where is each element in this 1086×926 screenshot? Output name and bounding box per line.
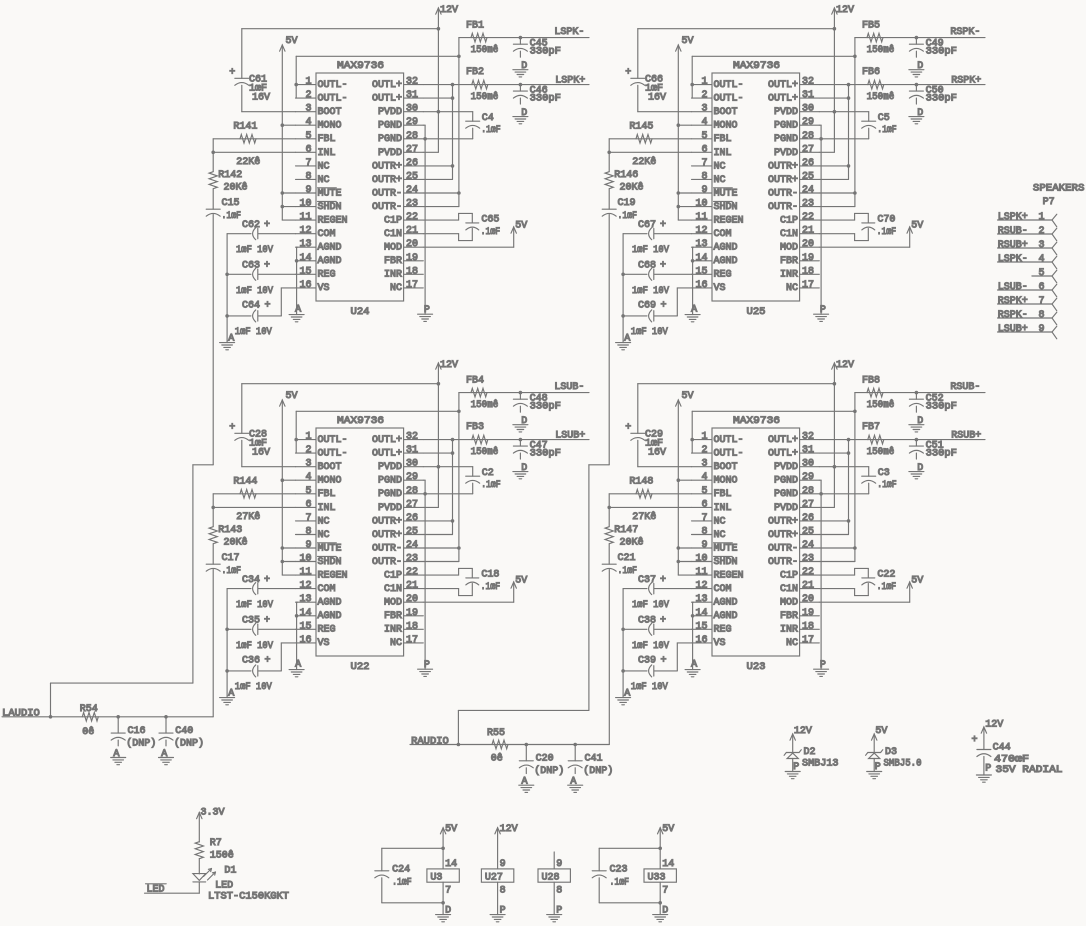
svg-text:P: P	[424, 660, 430, 671]
svg-text:4: 4	[305, 117, 311, 128]
svg-text:C1N: C1N	[780, 229, 798, 240]
svg-text:SHDN: SHDN	[714, 202, 738, 213]
svg-text:+: +	[660, 261, 666, 272]
svg-text:5V: 5V	[911, 221, 923, 232]
svg-text:330pF: 330pF	[926, 94, 957, 105]
svg-text:C4: C4	[482, 113, 494, 124]
svg-text:18: 18	[802, 266, 814, 277]
svg-text:FBL: FBL	[714, 489, 732, 500]
svg-text:1œF 10V: 1œF 10V	[236, 641, 273, 652]
svg-text:22Kê: 22Kê	[236, 156, 260, 168]
svg-text:.1œF: .1œF	[877, 480, 897, 491]
svg-text:7: 7	[1038, 296, 1044, 307]
svg-text:3: 3	[305, 459, 311, 470]
svg-text:+: +	[264, 261, 270, 272]
svg-text:330pF: 330pF	[530, 94, 561, 105]
svg-text:16V: 16V	[252, 448, 270, 459]
svg-text:C34: C34	[242, 575, 260, 586]
svg-text:R143: R143	[218, 525, 242, 536]
svg-text:PGND: PGND	[774, 489, 798, 500]
svg-text:30: 30	[406, 459, 418, 470]
svg-text:11: 11	[695, 212, 707, 223]
svg-text:6: 6	[701, 144, 707, 155]
svg-text:C1P: C1P	[780, 216, 798, 227]
svg-text:23: 23	[802, 199, 814, 210]
svg-text:C16: C16	[128, 726, 146, 737]
svg-text:REG: REG	[318, 625, 336, 636]
svg-text:10: 10	[695, 554, 707, 565]
svg-text:REGEN: REGEN	[714, 571, 744, 582]
svg-text:21: 21	[802, 581, 814, 592]
svg-text:OUTL+: OUTL+	[372, 94, 402, 105]
svg-text:31: 31	[802, 445, 814, 456]
svg-text:OUTR-: OUTR-	[372, 543, 402, 554]
svg-text:14: 14	[299, 608, 311, 619]
svg-text:OUTL-: OUTL-	[714, 94, 744, 105]
svg-text:15: 15	[695, 621, 707, 632]
svg-text:1œF 10V: 1œF 10V	[235, 327, 272, 338]
svg-text:R146: R146	[614, 170, 638, 181]
svg-text:OUTR+: OUTR+	[768, 516, 798, 527]
svg-text:29: 29	[406, 472, 418, 483]
svg-text:7: 7	[305, 513, 311, 524]
svg-text:U28: U28	[542, 873, 560, 884]
svg-text:25: 25	[406, 171, 418, 182]
svg-text:150mê: 150mê	[867, 44, 895, 56]
svg-text:19: 19	[802, 253, 814, 264]
svg-text:.1œF: .1œF	[877, 125, 897, 136]
svg-text:14: 14	[695, 608, 707, 619]
svg-text:21: 21	[406, 226, 418, 237]
svg-text:FB3: FB3	[466, 422, 484, 433]
svg-text:.1œF: .1œF	[618, 566, 638, 577]
svg-text:D: D	[521, 61, 527, 72]
svg-text:A: A	[624, 333, 630, 344]
svg-text:AGND: AGND	[318, 598, 342, 609]
svg-text:16: 16	[695, 635, 707, 646]
svg-text:MONO: MONO	[318, 476, 342, 487]
svg-text:NC: NC	[786, 283, 798, 294]
svg-text:22: 22	[802, 212, 814, 223]
svg-text:13: 13	[695, 239, 707, 250]
svg-text:30: 30	[802, 459, 814, 470]
svg-text:22Kê: 22Kê	[632, 156, 656, 168]
svg-text:C39: C39	[638, 656, 656, 667]
svg-text:+: +	[661, 301, 667, 312]
svg-text:13: 13	[299, 594, 311, 605]
svg-text:470œF: 470œF	[994, 755, 1029, 766]
svg-text:BOOT: BOOT	[318, 107, 342, 118]
svg-text:12: 12	[695, 226, 707, 237]
svg-text:C63: C63	[242, 261, 260, 272]
svg-text:28: 28	[802, 131, 814, 142]
svg-text:C20: C20	[536, 754, 554, 765]
svg-text:24: 24	[802, 185, 814, 196]
svg-text:27: 27	[802, 144, 814, 155]
svg-text:C62: C62	[242, 220, 260, 231]
svg-text:U25: U25	[747, 307, 766, 318]
svg-text:19: 19	[802, 608, 814, 619]
svg-text:MAX9736: MAX9736	[733, 416, 780, 427]
svg-text:4: 4	[1038, 254, 1044, 265]
svg-text:30: 30	[406, 104, 418, 115]
svg-text:5V: 5V	[682, 391, 694, 402]
svg-text:LSUB+: LSUB+	[555, 431, 585, 442]
svg-text:D: D	[917, 108, 923, 119]
svg-text:+: +	[660, 575, 666, 586]
svg-text:5: 5	[1038, 268, 1044, 279]
svg-text:5: 5	[701, 131, 707, 142]
svg-text:MOD: MOD	[384, 243, 402, 254]
svg-text:R55: R55	[487, 728, 505, 739]
svg-text:+: +	[972, 735, 978, 746]
svg-text:330pF: 330pF	[926, 449, 957, 460]
svg-text:8: 8	[305, 527, 311, 538]
svg-text:MONO: MONO	[714, 121, 738, 132]
svg-text:REGEN: REGEN	[318, 216, 348, 227]
svg-text:MUTE: MUTE	[714, 543, 738, 554]
svg-text:RSUB+: RSUB+	[951, 431, 981, 442]
svg-text:C2: C2	[482, 468, 494, 479]
svg-text:OUTL-: OUTL-	[318, 80, 348, 91]
svg-text:150mê: 150mê	[867, 91, 895, 103]
svg-text:INL: INL	[714, 148, 732, 159]
svg-text:7: 7	[701, 513, 707, 524]
svg-text:1: 1	[1038, 212, 1044, 223]
svg-text:.1œF: .1œF	[481, 480, 501, 491]
svg-text:7: 7	[701, 158, 707, 169]
svg-text:19: 19	[406, 253, 418, 264]
svg-text:15: 15	[299, 621, 311, 632]
svg-text:OUTL+: OUTL+	[372, 449, 402, 460]
svg-text:22: 22	[802, 567, 814, 578]
svg-text:1œF 10V: 1œF 10V	[632, 245, 669, 256]
svg-text:A: A	[295, 305, 301, 316]
svg-text:+: +	[264, 220, 270, 231]
svg-text:FBR: FBR	[384, 611, 402, 622]
svg-text:OUTR-: OUTR-	[372, 202, 402, 213]
svg-text:COM: COM	[714, 229, 732, 240]
svg-text:P: P	[985, 764, 991, 775]
svg-text:20: 20	[406, 239, 418, 250]
svg-text:7: 7	[445, 886, 451, 897]
svg-text:FB6: FB6	[862, 67, 880, 78]
svg-text:5V: 5V	[911, 576, 923, 587]
svg-text:R54: R54	[80, 704, 98, 715]
svg-text:1œF 10V: 1œF 10V	[236, 600, 273, 611]
svg-text:SPEAKERS: SPEAKERS	[1033, 184, 1085, 195]
svg-text:1œF 10V: 1œF 10V	[631, 327, 668, 338]
svg-text:20: 20	[406, 594, 418, 605]
svg-text:32: 32	[802, 77, 814, 88]
svg-text:25: 25	[802, 527, 814, 538]
svg-text:REG: REG	[714, 625, 732, 636]
svg-text:19: 19	[406, 608, 418, 619]
svg-text:C68: C68	[638, 261, 656, 272]
svg-text:FB7: FB7	[862, 422, 880, 433]
svg-text:330pF: 330pF	[530, 449, 561, 460]
svg-text:D: D	[917, 463, 923, 474]
svg-text:C44: C44	[993, 743, 1011, 754]
svg-text:1: 1	[701, 77, 707, 88]
svg-text:5V: 5V	[662, 824, 674, 835]
svg-text:A: A	[691, 305, 697, 316]
svg-text:OUTL+: OUTL+	[768, 94, 798, 105]
svg-text:AGND: AGND	[714, 256, 738, 267]
svg-text:OUTL-: OUTL-	[318, 94, 348, 105]
svg-text:C70: C70	[877, 215, 895, 226]
svg-text:23: 23	[802, 554, 814, 565]
svg-text:C37: C37	[638, 575, 656, 586]
svg-text:PVDD: PVDD	[378, 503, 402, 514]
svg-text:AGND: AGND	[318, 256, 342, 267]
svg-text:1: 1	[305, 77, 311, 88]
svg-text:150mê: 150mê	[867, 446, 895, 458]
svg-text:U27: U27	[485, 873, 503, 884]
svg-text:PGND: PGND	[378, 476, 402, 487]
svg-text:SMBJ13: SMBJ13	[802, 759, 839, 770]
svg-text:NC: NC	[318, 530, 330, 541]
svg-text:AGND: AGND	[714, 598, 738, 609]
svg-text:OUTR-: OUTR-	[768, 543, 798, 554]
svg-text:5V: 5V	[286, 391, 298, 402]
svg-text:.1œF: .1œF	[877, 227, 897, 238]
svg-text:25: 25	[802, 171, 814, 182]
svg-text:D1: D1	[224, 866, 236, 877]
svg-text:A: A	[570, 777, 576, 788]
svg-text:5V: 5V	[875, 726, 887, 737]
svg-text:(DNP): (DNP)	[174, 738, 204, 750]
svg-text:FBL: FBL	[318, 489, 336, 500]
svg-text:PVDD: PVDD	[378, 462, 402, 473]
svg-text:31: 31	[406, 90, 418, 101]
svg-text:1œF 10V: 1œF 10V	[236, 245, 273, 256]
svg-text:BOOT: BOOT	[318, 462, 342, 473]
svg-text:LED: LED	[215, 881, 233, 892]
svg-text:FBR: FBR	[780, 256, 798, 267]
svg-text:3: 3	[701, 104, 707, 115]
svg-text:12V: 12V	[794, 726, 812, 737]
svg-text:10: 10	[299, 554, 311, 565]
svg-text:U33: U33	[648, 873, 666, 884]
svg-text:27Kê: 27Kê	[632, 511, 656, 523]
svg-text:+: +	[229, 422, 235, 433]
svg-text:RAUDIO: RAUDIO	[411, 737, 449, 748]
svg-text:30: 30	[802, 104, 814, 115]
svg-text:9: 9	[305, 185, 311, 196]
svg-text:MAX9736: MAX9736	[337, 416, 384, 427]
svg-text:330pF: 330pF	[530, 47, 561, 58]
svg-text:18: 18	[406, 621, 418, 632]
svg-text:INR: INR	[384, 270, 402, 281]
svg-text:RSPK-: RSPK-	[998, 310, 1028, 321]
svg-text:9: 9	[701, 185, 707, 196]
svg-text:BOOT: BOOT	[714, 462, 738, 473]
svg-text:A: A	[228, 688, 234, 699]
svg-text:LSPK+: LSPK+	[555, 76, 585, 87]
svg-text:LSPK-: LSPK-	[554, 27, 584, 38]
svg-text:13: 13	[695, 594, 707, 605]
svg-text:LAUDIO: LAUDIO	[2, 709, 40, 720]
svg-text:5: 5	[305, 131, 311, 142]
svg-text:+: +	[265, 301, 271, 312]
svg-text:FB2: FB2	[466, 67, 484, 78]
svg-text:9: 9	[1038, 324, 1044, 335]
svg-text:150mê: 150mê	[471, 44, 499, 56]
svg-text:INL: INL	[318, 503, 336, 514]
svg-text:C67: C67	[638, 220, 656, 231]
svg-text:35V RADIAL: 35V RADIAL	[996, 765, 1063, 776]
svg-text:MOD: MOD	[780, 243, 798, 254]
svg-text:R144: R144	[233, 477, 257, 488]
svg-text:31: 31	[802, 90, 814, 101]
svg-text:5V: 5V	[682, 36, 694, 47]
svg-text:C18: C18	[481, 570, 499, 581]
svg-text:RSUB-: RSUB-	[950, 382, 980, 393]
svg-text:16: 16	[695, 280, 707, 291]
svg-text:9: 9	[305, 540, 311, 551]
svg-text:MOD: MOD	[384, 598, 402, 609]
svg-text:C3: C3	[878, 468, 890, 479]
svg-text:1: 1	[701, 432, 707, 443]
svg-text:16: 16	[299, 635, 311, 646]
svg-text:MOD: MOD	[780, 598, 798, 609]
svg-text:C38: C38	[638, 616, 656, 627]
svg-text:3: 3	[305, 104, 311, 115]
svg-text:U24: U24	[351, 307, 370, 318]
svg-text:20Kê: 20Kê	[224, 182, 248, 194]
svg-text:RSUB-: RSUB-	[998, 226, 1028, 237]
svg-text:+: +	[264, 616, 270, 627]
svg-text:32: 32	[406, 77, 418, 88]
svg-text:2: 2	[701, 445, 707, 456]
svg-text:28: 28	[406, 131, 418, 142]
svg-text:NC: NC	[714, 175, 726, 186]
svg-text:C41: C41	[585, 754, 603, 765]
svg-text:27: 27	[406, 499, 418, 510]
svg-text:P: P	[820, 305, 826, 316]
svg-text:SHDN: SHDN	[714, 557, 738, 568]
svg-text:OUTL+: OUTL+	[768, 449, 798, 460]
svg-text:.1œF: .1œF	[481, 582, 501, 593]
svg-text:20: 20	[802, 594, 814, 605]
svg-text:6: 6	[305, 144, 311, 155]
svg-text:C5: C5	[878, 113, 890, 124]
svg-text:PVDD: PVDD	[774, 462, 798, 473]
svg-text:32: 32	[802, 432, 814, 443]
svg-text:17: 17	[802, 635, 814, 646]
svg-text:NC: NC	[390, 283, 402, 294]
svg-text:150mê: 150mê	[471, 446, 499, 458]
svg-text:D3: D3	[885, 747, 897, 758]
svg-text:24: 24	[406, 185, 418, 196]
svg-text:COM: COM	[318, 584, 336, 595]
svg-text:PGND: PGND	[774, 476, 798, 487]
svg-text:INR: INR	[780, 625, 798, 636]
svg-text:OUTR-: OUTR-	[372, 557, 402, 568]
svg-text:1œF 10V: 1œF 10V	[632, 286, 669, 297]
svg-text:C17: C17	[222, 553, 240, 564]
svg-text:C1N: C1N	[780, 584, 798, 595]
svg-text:FB4: FB4	[466, 376, 484, 387]
svg-text:A: A	[113, 749, 119, 760]
svg-text:16V: 16V	[648, 448, 666, 459]
svg-text:OUTR+: OUTR+	[768, 530, 798, 541]
svg-text:OUTL-: OUTL-	[714, 80, 744, 91]
svg-text:PVDD: PVDD	[774, 503, 798, 514]
svg-text:SHDN: SHDN	[318, 557, 342, 568]
svg-text:10: 10	[695, 199, 707, 210]
svg-text:VS: VS	[714, 638, 726, 649]
svg-text:C24: C24	[392, 865, 410, 876]
svg-text:15: 15	[299, 266, 311, 277]
svg-text:MAX9736: MAX9736	[733, 61, 780, 72]
svg-text:D: D	[521, 416, 527, 427]
svg-text:26: 26	[802, 513, 814, 524]
svg-text:VS: VS	[714, 283, 726, 294]
svg-text:BOOT: BOOT	[714, 107, 738, 118]
svg-text:OUTR-: OUTR-	[372, 188, 402, 199]
svg-text:12V: 12V	[836, 360, 854, 371]
svg-text:NC: NC	[714, 530, 726, 541]
svg-text:7: 7	[305, 158, 311, 169]
svg-text:26: 26	[802, 158, 814, 169]
svg-text:R147: R147	[614, 525, 638, 536]
svg-text:26: 26	[406, 513, 418, 524]
svg-text:16V: 16V	[648, 93, 666, 104]
svg-text:INL: INL	[714, 503, 732, 514]
svg-text:U22: U22	[351, 662, 370, 673]
svg-text:PVDD: PVDD	[378, 107, 402, 118]
svg-text:2: 2	[305, 445, 311, 456]
svg-text:150mê: 150mê	[867, 399, 895, 411]
svg-text:17: 17	[406, 280, 418, 291]
svg-text:(DNP): (DNP)	[126, 738, 156, 750]
svg-text:A: A	[228, 333, 234, 344]
svg-text:8: 8	[1038, 310, 1044, 321]
svg-text:1œF 10V: 1œF 10V	[236, 286, 273, 297]
svg-text:18: 18	[406, 266, 418, 277]
svg-text:NC: NC	[714, 161, 726, 172]
svg-text:12: 12	[695, 581, 707, 592]
svg-text:13: 13	[299, 239, 311, 250]
svg-text:8: 8	[305, 171, 311, 182]
svg-text:7: 7	[662, 886, 668, 897]
svg-text:D: D	[917, 416, 923, 427]
svg-text:D: D	[917, 61, 923, 72]
svg-text:24: 24	[406, 540, 418, 551]
svg-text:20: 20	[802, 239, 814, 250]
svg-text:4: 4	[701, 117, 707, 128]
svg-text:26: 26	[406, 158, 418, 169]
svg-text:C40: C40	[175, 726, 193, 737]
svg-text:C64: C64	[242, 301, 260, 312]
svg-text:FBR: FBR	[384, 256, 402, 267]
svg-text:FB1: FB1	[466, 21, 484, 32]
svg-text:NC: NC	[786, 638, 798, 649]
svg-text:P: P	[424, 305, 430, 316]
svg-text:FB5: FB5	[862, 21, 880, 32]
svg-text:AGND: AGND	[318, 243, 342, 254]
svg-text:D: D	[521, 463, 527, 474]
svg-text:R148: R148	[629, 477, 653, 488]
svg-text:2: 2	[305, 90, 311, 101]
svg-text:PVDD: PVDD	[774, 107, 798, 118]
svg-text:28: 28	[406, 486, 418, 497]
svg-text:+: +	[660, 220, 666, 231]
svg-text:1œF 10V: 1œF 10V	[631, 682, 668, 693]
svg-text:SHDN: SHDN	[318, 202, 342, 213]
